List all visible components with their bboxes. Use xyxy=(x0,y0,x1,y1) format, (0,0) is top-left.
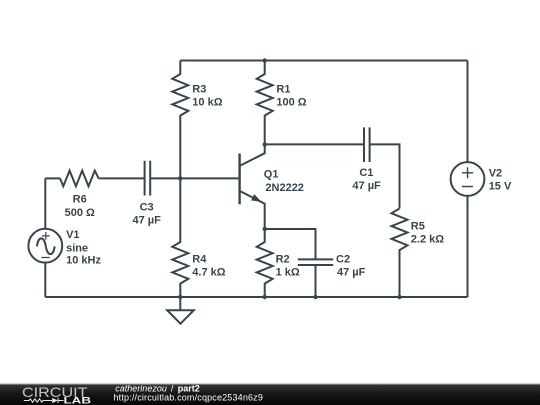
svg-text:4.7 kΩ: 4.7 kΩ xyxy=(192,267,225,279)
wire C1 to R5 xyxy=(370,144,400,208)
svg-text:R4: R4 xyxy=(192,254,207,266)
svg-text:2N2222: 2N2222 xyxy=(265,182,304,194)
label C1 47uF xyxy=(352,167,381,192)
svg-text:R3: R3 xyxy=(192,84,206,96)
wire emitter to C2 xyxy=(265,229,316,259)
resistor R5 xyxy=(392,209,408,298)
wire C3 to base (through node) xyxy=(150,177,239,179)
label V1 sine 10 kHz xyxy=(66,229,101,267)
node collector dot xyxy=(263,142,267,146)
svg-text:10 kHz: 10 kHz xyxy=(66,255,101,267)
svg-text:47 µF: 47 µF xyxy=(352,180,381,192)
svg-text:C3: C3 xyxy=(140,202,154,214)
svg-text:47 µF: 47 µF xyxy=(133,215,162,227)
svg-text:1 kΩ: 1 kΩ xyxy=(276,267,300,279)
svg-text:R5: R5 xyxy=(411,220,425,232)
svg-text:R2: R2 xyxy=(276,254,290,266)
svg-text:100 Ω: 100 Ω xyxy=(276,96,306,108)
wire V1 top leg xyxy=(44,178,46,229)
node top rail R1 dot xyxy=(263,58,267,62)
label R3 10k xyxy=(192,84,222,109)
svg-text:R1: R1 xyxy=(276,84,290,96)
node emitter junction dot xyxy=(263,227,267,231)
label R5 2.2k xyxy=(411,220,444,245)
resistor R1 xyxy=(257,61,273,145)
svg-text:C1: C1 xyxy=(359,167,373,179)
svg-text:10 kΩ: 10 kΩ xyxy=(192,96,222,108)
svg-text:V2: V2 xyxy=(489,168,502,180)
node R4 bottom rail dot xyxy=(178,295,182,299)
wire top rail xyxy=(180,60,467,62)
svg-text:LAB: LAB xyxy=(64,395,92,405)
wire V2 bottom leg xyxy=(467,196,469,297)
svg-text:2.2 kΩ: 2.2 kΩ xyxy=(411,233,444,245)
footer credit line xyxy=(115,383,200,393)
resistor R3 xyxy=(172,61,188,179)
node R5 bottom rail dot xyxy=(397,295,401,299)
svg-text:C2: C2 xyxy=(336,254,350,266)
wire V1 bottom leg xyxy=(44,263,46,297)
svg-text:sine: sine xyxy=(66,243,88,255)
wire R6 to C3 xyxy=(99,177,145,179)
wire V1 to R6 xyxy=(45,177,60,179)
svg-text:http://circuitlab.com/cqpce253: http://circuitlab.com/cqpce2534n6z9 xyxy=(114,393,264,403)
node R2 bottom rail dot xyxy=(263,295,267,299)
resistor R2 xyxy=(257,229,273,297)
resistor R4 xyxy=(172,178,188,297)
footer bar xyxy=(0,384,540,405)
label R2 1k xyxy=(276,254,300,279)
capacitor C3 xyxy=(145,161,151,196)
transistor Q1 xyxy=(240,144,265,229)
node C2 bottom rail dot xyxy=(313,295,317,299)
wire collector to C1 xyxy=(265,143,364,145)
svg-text:47 µF: 47 µF xyxy=(337,267,366,279)
logo doodle resistor diode xyxy=(24,398,64,403)
resistor R6 xyxy=(60,171,99,187)
voltage source V1 xyxy=(28,229,62,263)
label Q1 2N2222 xyxy=(264,168,304,193)
capacitor C1 xyxy=(364,127,370,162)
wire bottom rail xyxy=(45,296,467,298)
label R4 4.7k xyxy=(192,254,225,279)
label C2 47uF xyxy=(336,254,366,279)
label V2 15V xyxy=(489,168,512,193)
svg-text:V1: V1 xyxy=(66,229,79,241)
node base junction dot xyxy=(178,176,182,180)
label R1 100 ohm xyxy=(276,84,306,109)
svg-text:15 V: 15 V xyxy=(489,181,512,193)
ground xyxy=(167,297,194,324)
voltage source V2 xyxy=(451,162,485,196)
svg-text:Q1: Q1 xyxy=(264,168,279,180)
svg-text:500 Ω: 500 Ω xyxy=(65,207,95,219)
wire C2 bottom xyxy=(315,265,317,297)
capacitor C2 xyxy=(298,259,333,265)
svg-text:R6: R6 xyxy=(73,193,87,205)
wire V2 top leg xyxy=(467,61,469,163)
label R6 500 ohm xyxy=(65,193,95,219)
label C3 47uF xyxy=(133,202,162,227)
